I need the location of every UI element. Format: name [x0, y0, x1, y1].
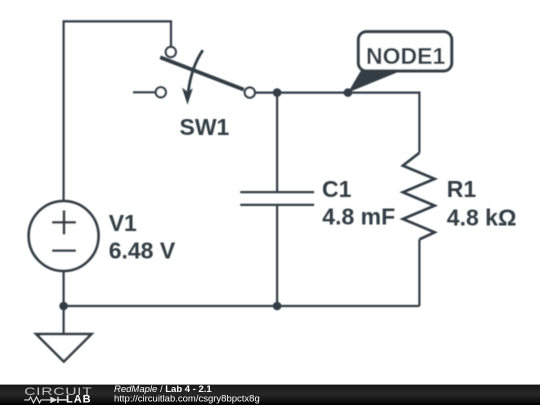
junction ground node: [59, 302, 68, 311]
svg-text:4.8 kΩ: 4.8 kΩ: [447, 205, 517, 231]
wire V1 bottom to ground node: [62, 271, 64, 334]
logo diode: [50, 397, 57, 404]
svg-text:4.8 mF: 4.8 mF: [322, 203, 395, 229]
svg-text:LAB: LAB: [66, 394, 92, 405]
wire top-left rail from V1 to switch throw: [64, 21, 171, 201]
junction capacitor bottom: [273, 302, 282, 311]
footer bar: [0, 385, 540, 405]
voltage source V1: [29, 201, 99, 271]
V1 minus sign: [52, 249, 76, 252]
svg-text:SW1: SW1: [180, 114, 230, 140]
wire capacitor bottom branch: [276, 205, 278, 306]
switch SW1 actuation arrow: [188, 50, 203, 91]
svg-text:V1: V1: [109, 210, 137, 236]
ground: [36, 334, 91, 362]
switch SW1 common terminal: [245, 88, 255, 98]
svg-text:R1: R1: [447, 176, 477, 202]
svg-text:6.48 V: 6.48 V: [109, 237, 176, 263]
svg-text:C1: C1: [322, 176, 352, 202]
NODE1 callout box: [358, 32, 451, 71]
wire bottom rail: [64, 305, 420, 307]
switch SW1 blade: [160, 57, 244, 89]
wire resistor bottom: [418, 239, 420, 306]
svg-text:http://circuitlab.com/csgry8bp: http://circuitlab.com/csgry8bpctx8g: [114, 394, 260, 405]
node NODE1 dot: [344, 88, 353, 97]
NODE1 callout tail: [348, 70, 402, 93]
logo zigzag resistor: [24, 397, 50, 403]
capacitor C1 top plate: [240, 191, 314, 193]
capacitor C1 bottom plate: [240, 204, 314, 206]
wire pole stub: [133, 91, 156, 93]
wire node rail from switch common to resistor: [255, 93, 419, 153]
switch SW1 pole terminal (open): [156, 87, 166, 97]
svg-text:NODE1: NODE1: [366, 43, 445, 69]
switch SW1 throw terminal: [166, 47, 176, 57]
resistor R1 zigzag: [403, 153, 435, 240]
V1 plus sign: [52, 210, 76, 234]
junction capacitor top: [273, 88, 282, 97]
wire capacitor top branch: [276, 93, 278, 192]
